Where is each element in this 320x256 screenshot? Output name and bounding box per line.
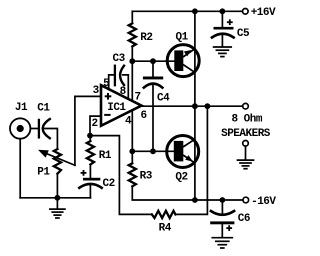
junction node dots [55, 8, 226, 203]
transistor Q2 emitter arrow [185, 155, 193, 162]
ground symbol main [50, 209, 65, 218]
wire IC1 pin 5 stub [109, 75, 114, 89]
svg-text:-16V: -16V [251, 196, 276, 208]
wire IC1 pin 4 lead [131, 110, 133, 151]
svg-text:C3: C3 [112, 53, 125, 65]
capacitor C2 curved electrode [79, 184, 101, 188]
node C4 bottom [150, 148, 156, 154]
svg-text:4: 4 [125, 116, 132, 128]
node -16V rail C6 [220, 197, 226, 203]
wire R2 top lead from rail corner [131, 11, 133, 23]
wire C6 top lead [221, 200, 223, 215]
capacitor C1 plate [38, 120, 40, 137]
node C4 top [150, 58, 156, 64]
wire C4 bottom lead down to lower bias node (crosses output rail) [152, 84, 154, 151]
svg-text:SPEAKERS: SPEAKERS [221, 128, 271, 140]
node -16V rail Q2 [192, 197, 198, 203]
svg-text:7: 7 [134, 91, 140, 103]
resistor R1 [87, 141, 94, 164]
transistor Q1 emitter arrow [184, 50, 192, 56]
op-amp IC1 triangle [101, 85, 142, 126]
node output rail Q1/Q2 [192, 103, 198, 109]
plus sign C5 [227, 19, 233, 25]
resistor R2 [129, 23, 136, 46]
wire P1 bottom lead [56, 174, 58, 198]
wire speaker return stub [245, 146, 247, 160]
wire R3 bottom to -16V rail [132, 186, 242, 200]
wire node upper bias row y=61 to Q1 base [132, 60, 174, 62]
svg-text:R1: R1 [99, 150, 112, 162]
svg-text:R3: R3 [140, 171, 153, 183]
wire +16V top rail [132, 10, 242, 12]
capacitor C6 plate [210, 221, 234, 224]
terminal -16V [243, 197, 249, 203]
node pin4/R3 [129, 148, 135, 154]
svg-text:3: 3 [93, 85, 100, 97]
wire R2 bottom lead [131, 46, 133, 61]
svg-text:8: 8 [120, 86, 127, 98]
connector J1 jack tip dot [17, 125, 24, 132]
wire Q2 vertical line x=195 [194, 106, 196, 200]
wire C2 bottom lead to ground bus [89, 184, 91, 197]
wire R4 left lead to feedback corner [90, 136, 152, 215]
wire IC1 pin 2 lead [90, 116, 101, 136]
svg-text:Q2: Q2 [175, 171, 187, 183]
svg-text:5: 5 [103, 78, 110, 90]
svg-text:C6: C6 [238, 213, 250, 225]
terminal speaker return [243, 141, 249, 147]
svg-text:J1: J1 [15, 102, 28, 114]
potentiometer P1 body [54, 149, 61, 174]
ground symbol under C5 [214, 47, 232, 57]
resistor R3 top lead [131, 151, 133, 163]
node +16V rail C5 [220, 8, 226, 14]
svg-text:R4: R4 [159, 223, 172, 235]
plus sign C2 [81, 170, 87, 176]
capacitor C5 curved electrode [212, 34, 234, 38]
svg-text:Q1: Q1 [175, 32, 188, 44]
transistor Q2 collector diagonal [183, 139, 196, 147]
wire C5 bottom lead [221, 34, 223, 47]
wire feedback line from output down to R4 [175, 106, 207, 214]
transistor Q2 base bar [174, 141, 184, 162]
svg-text:+16V: +16V [251, 7, 276, 19]
svg-text:C1: C1 [37, 103, 50, 115]
wire Q1 vertical emitter-collector line x=195 [194, 11, 196, 106]
wire IC1 pin 3 lead [75, 96, 101, 165]
wire R1 to C2 [89, 165, 91, 178]
wire C6 bottom lead [221, 224, 223, 237]
capacitor C4 plate [143, 77, 163, 80]
wire R1 top lead [89, 136, 91, 142]
plus sign IC1 noninverting input [105, 93, 112, 100]
wire IC1 pin 8 stub [123, 75, 128, 99]
terminal +16V [243, 9, 249, 15]
transistor Q1 emitter diagonal [183, 48, 196, 57]
wire C5 top lead [221, 11, 223, 27]
capacitor C3 curved electrode [120, 66, 124, 85]
terminal output [243, 103, 249, 109]
svg-text:C2: C2 [102, 178, 114, 190]
svg-text:R2: R2 [140, 32, 152, 44]
wire ground bus [20, 197, 90, 199]
resistor R4 [152, 211, 176, 218]
plus sign C6 [226, 225, 232, 231]
wire main ground stub [56, 198, 58, 209]
transistor Q2 emitter diagonal [183, 155, 196, 163]
capacitor C2 plate [83, 178, 100, 181]
node pin2/R1/feedback [87, 133, 93, 139]
wire output rail to +out terminal [142, 105, 243, 107]
node output rail feedback [205, 103, 211, 109]
capacitor C4 curved electrode [144, 84, 163, 88]
resistor R3 [129, 163, 136, 186]
transistor Q2 circle [167, 136, 199, 168]
svg-text:IC1: IC1 [107, 102, 126, 114]
node +16V rail Q1 [192, 8, 198, 14]
wire J1 sleeve down [19, 140, 21, 198]
ground symbol speaker return [238, 160, 254, 169]
svg-text:C5: C5 [237, 28, 250, 40]
node R2/pin7/C4 row [129, 58, 135, 64]
wire P1 wiper diagonal to pin3 line [46, 153, 75, 165]
capacitor C5 plate [214, 27, 234, 30]
svg-text:P1: P1 [37, 167, 50, 179]
connector J1 jack outer circle [10, 118, 30, 138]
svg-text:8 Ohm: 8 Ohm [231, 114, 262, 126]
wire J1 tip to C1 [31, 128, 38, 130]
svg-text:2: 2 [92, 118, 98, 130]
svg-text:C4: C4 [157, 92, 170, 104]
capacitor C3 plate [114, 66, 116, 86]
transistor Q1 base bar [174, 50, 183, 71]
svg-text:6: 6 [140, 110, 146, 122]
node ground bus P1 [55, 195, 61, 201]
capacitor C1 curved electrode [43, 119, 50, 138]
transistor Q1 circle [167, 45, 199, 77]
minus sign IC1 inverting input [104, 114, 110, 116]
wire lower bias row y=151 to Q2 base [132, 150, 174, 152]
transistor Q1 collector diagonal [183, 65, 196, 73]
wire C4 top lead [152, 61, 154, 76]
wire C1 to P1 top [44, 129, 57, 150]
capacitor C6 curved electrode [211, 211, 234, 215]
wire IC1 pin 7 stub [131, 61, 133, 101]
ground symbol under C6 [212, 238, 232, 248]
potentiometer P1 wiper arrow [38, 150, 49, 158]
